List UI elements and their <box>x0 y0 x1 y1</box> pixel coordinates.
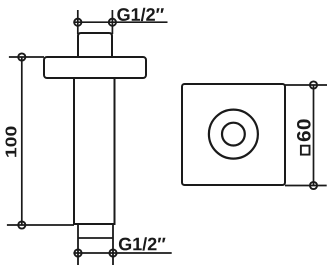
value label 100 <box>5 127 16 157</box>
dimension line: top G1/2 <box>73 21 167 23</box>
marker: 60 dim bottom <box>310 182 317 189</box>
extension line: square bottom edge <box>285 185 327 187</box>
marker: bottom dim right <box>109 249 116 256</box>
extension line: ceiling plane <box>9 56 44 58</box>
square escutcheon body (top view) <box>182 84 285 185</box>
thread stub bottom left edge <box>77 224 79 265</box>
inner circle (outlet) <box>222 123 245 146</box>
thread stub top <box>78 33 112 58</box>
extension line: top thread OD left <box>77 10 79 34</box>
outer circle (shower head boss) <box>209 110 258 159</box>
marker: top dim left <box>74 19 81 26</box>
dimension line: 100 vertical <box>21 57 23 225</box>
marker: 100 dim bottom <box>18 221 25 228</box>
flange (ceiling plate) <box>44 57 146 78</box>
square symbol of label <box>301 146 310 155</box>
thread stub bottom step line <box>78 237 113 239</box>
value label 60 <box>297 119 311 141</box>
extension line: top thread OD right <box>111 10 113 34</box>
value label G1/2 top <box>117 8 164 21</box>
marker: top dim right <box>109 19 116 26</box>
marker: 60 dim top <box>310 81 317 88</box>
extension line: square top edge <box>285 84 327 86</box>
thread stub bottom right edge <box>112 224 114 265</box>
marker: 100 dim top <box>18 53 25 60</box>
dimension line: square 60 vertical <box>313 85 315 186</box>
pipe body <box>74 78 115 224</box>
dimension line: bottom G1/2 <box>73 252 171 254</box>
extension line: pipe end <box>7 224 74 226</box>
marker: bottom dim left <box>74 249 81 256</box>
value label G1/2 bottom <box>119 237 166 250</box>
